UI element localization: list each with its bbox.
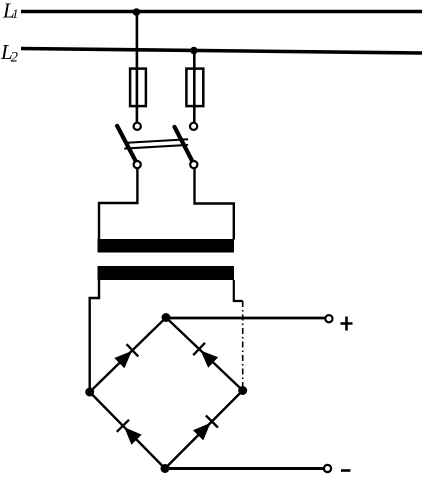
svg-text:2: 2: [11, 50, 19, 66]
svg-text:1: 1: [12, 6, 19, 21]
